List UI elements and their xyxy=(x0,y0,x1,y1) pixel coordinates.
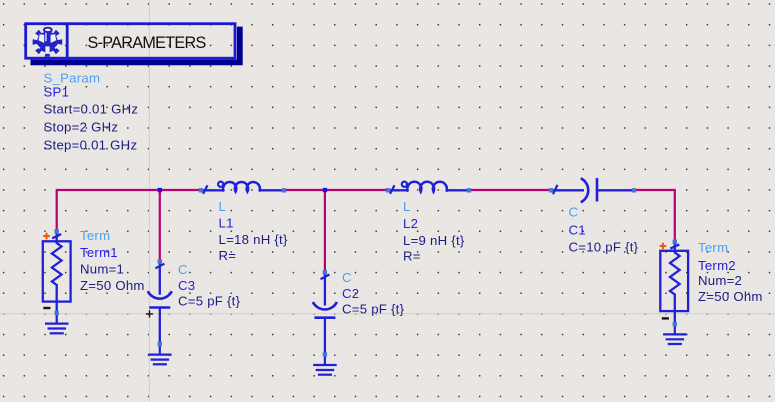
wire C1 to Term2 with corner xyxy=(634,190,675,242)
pin C2.1 xyxy=(323,270,327,274)
wire node1 down to C3 xyxy=(159,190,161,262)
minus Term2 xyxy=(662,317,669,319)
svg-text:Step=0.01 GHz: Step=0.01 GHz xyxy=(44,137,138,152)
pin C3.1 xyxy=(158,259,162,263)
inductor L2 xyxy=(388,182,469,194)
svg-text:Term2: Term2 xyxy=(698,258,736,273)
junction node A xyxy=(158,188,162,192)
label Term2 xyxy=(698,240,763,304)
svg-text:S_Param: S_Param xyxy=(44,71,101,86)
pin L2.1 xyxy=(386,188,390,192)
pin C1.2 xyxy=(632,188,636,192)
svg-text:Z=50 Ohm: Z=50 Ohm xyxy=(698,289,763,304)
svg-text:L2: L2 xyxy=(403,216,418,231)
svg-text:Term: Term xyxy=(698,240,728,255)
wire L1 to L2 xyxy=(284,189,388,191)
pin Term2.1 xyxy=(673,240,677,244)
svg-text:C2: C2 xyxy=(342,286,359,301)
junction node B xyxy=(323,188,327,192)
svg-text:L: L xyxy=(219,199,227,214)
pin L1.1 xyxy=(199,188,203,192)
gear icon U0 xyxy=(33,27,63,57)
svg-text:Stop=2 GHz: Stop=2 GHz xyxy=(44,120,119,135)
wire node2 down to C2 xyxy=(324,190,326,272)
svg-text:C=5 pF {t}: C=5 pF {t} xyxy=(178,293,241,308)
ground Term1 xyxy=(45,313,69,333)
ground Term2 xyxy=(663,324,687,344)
inductor L1 xyxy=(201,182,284,194)
term Term1 xyxy=(43,232,71,314)
capacitor C3 xyxy=(148,262,172,345)
svg-text:C1: C1 xyxy=(569,222,586,237)
pin L2.2 xyxy=(467,188,471,192)
origin marker xyxy=(146,310,153,317)
capacitor C2 xyxy=(313,272,337,354)
label L1 xyxy=(219,199,288,263)
S-PARAMETERS box shadow xyxy=(31,27,243,66)
svg-text:R=: R= xyxy=(403,248,421,263)
wire Term1 to L1 with corner xyxy=(57,190,201,232)
S-PARAMETERS box border xyxy=(26,24,235,59)
svg-text:SP1: SP1 xyxy=(44,85,70,100)
svg-text:C=10 pF {t}: C=10 pF {t} xyxy=(569,239,639,254)
pin C1.1 xyxy=(549,188,553,192)
svg-text:L=9 nH {t}: L=9 nH {t} xyxy=(403,233,465,248)
plus Term2 xyxy=(660,243,667,250)
wire L2 to C1 xyxy=(469,189,551,191)
ground C3 xyxy=(148,344,172,364)
svg-text:Num=1: Num=1 xyxy=(80,262,124,277)
svg-text:R=: R= xyxy=(219,248,237,263)
label C2 xyxy=(342,270,405,316)
svg-text:S-PARAMETERS: S-PARAMETERS xyxy=(88,34,207,52)
axis line horizontal xyxy=(0,313,775,315)
S-PARAMETERS box divider xyxy=(66,22,69,59)
term Term2 xyxy=(660,242,688,324)
svg-text:C: C xyxy=(569,204,579,219)
pin L1.2 xyxy=(282,188,286,192)
svg-text:Num=2: Num=2 xyxy=(698,273,742,288)
label Term1 xyxy=(80,228,145,293)
svg-text:C3: C3 xyxy=(178,278,195,293)
minus Term1 xyxy=(43,307,50,309)
svg-text:Term: Term xyxy=(80,228,110,243)
label C3 xyxy=(178,262,241,309)
pin Term1.gnd xyxy=(55,311,59,315)
svg-text:L1: L1 xyxy=(219,216,234,231)
plus Term1 xyxy=(43,233,50,240)
axis line vertical xyxy=(148,0,150,402)
svg-text:L=18 nH {t}: L=18 nH {t} xyxy=(219,232,288,247)
svg-text:Z=50 Ohm: Z=50 Ohm xyxy=(80,278,145,293)
pin C3.gnd xyxy=(158,342,162,346)
label S_Param xyxy=(44,71,139,153)
svg-text:C: C xyxy=(342,270,352,285)
label L2 xyxy=(403,199,465,263)
label C1 xyxy=(569,204,639,254)
capacitor C1 xyxy=(551,178,634,202)
svg-text:C=5 pF {t}: C=5 pF {t} xyxy=(342,301,405,316)
pin Term2.gnd xyxy=(673,322,677,326)
svg-text:Start=0.01 GHz: Start=0.01 GHz xyxy=(44,102,139,117)
svg-text:Term1: Term1 xyxy=(80,245,118,260)
svg-text:L: L xyxy=(403,199,411,214)
svg-text:C: C xyxy=(178,262,188,277)
ground C2 xyxy=(313,355,337,375)
pin C2.gnd xyxy=(323,352,327,356)
pin Term1.1 xyxy=(55,229,59,233)
